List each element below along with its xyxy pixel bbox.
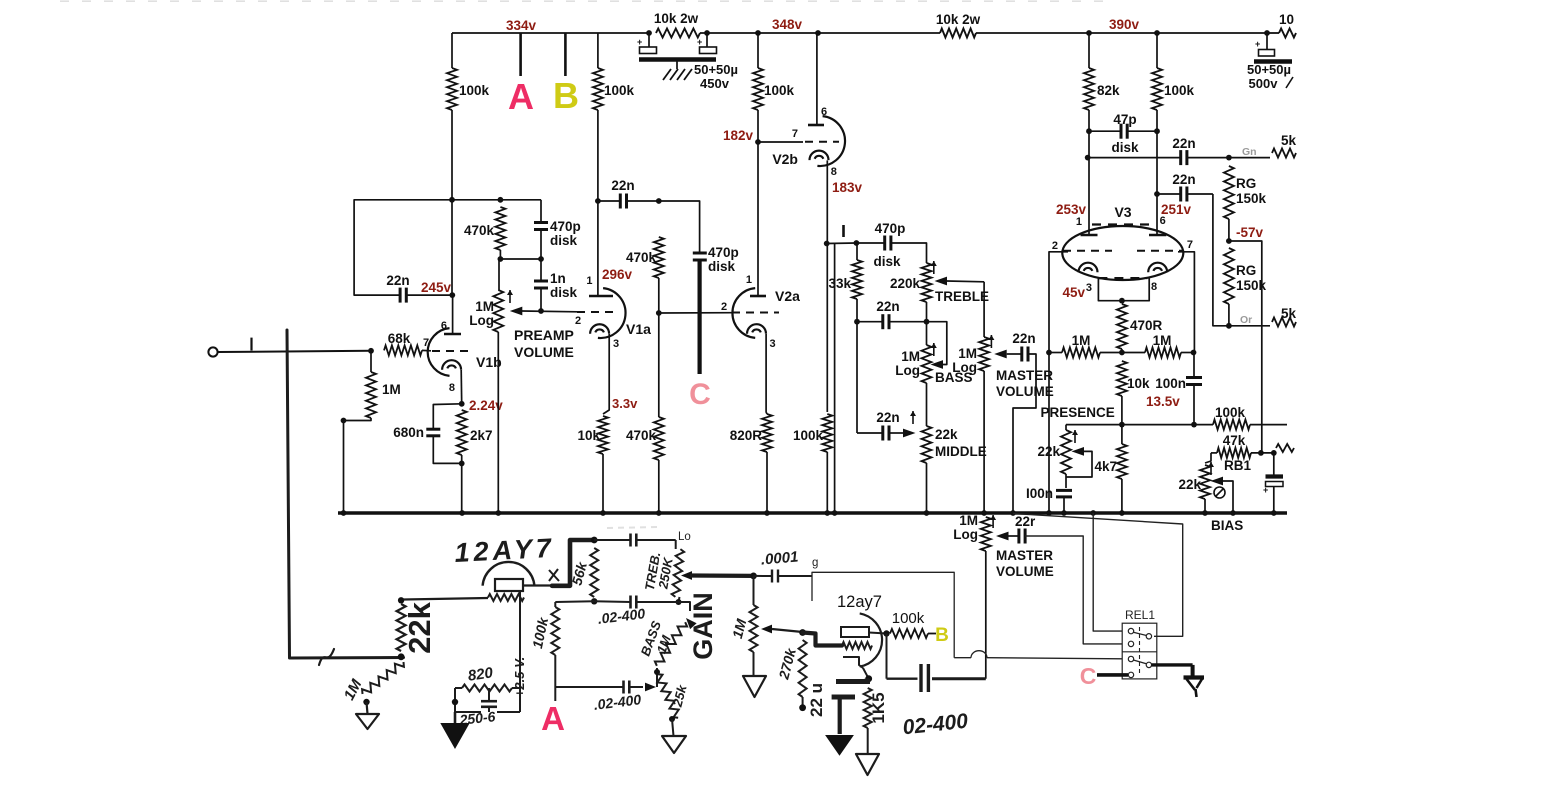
- svg-text:100k: 100k: [892, 610, 925, 627]
- wire hand 22k to grid: [404, 598, 489, 600]
- junction rail right of first 10k: [704, 30, 710, 36]
- wire presence pot top: [1065, 425, 1067, 430]
- svg-text:47k: 47k: [1223, 433, 1246, 448]
- svg-text:1M: 1M: [958, 346, 977, 361]
- triode hand tube2 cathode: [843, 657, 863, 668]
- input jack: [208, 347, 217, 356]
- svg-text:disk: disk: [708, 259, 736, 274]
- wire bass bottom to middle: [926, 383, 928, 426]
- junction hand 270k bottom: [799, 704, 806, 711]
- wire preamp pot to rail: [497, 332, 499, 513]
- label 470p disk C: [708, 245, 739, 274]
- svg-text:7: 7: [1187, 239, 1193, 251]
- svg-text:.0001: .0001: [760, 548, 799, 568]
- wire 470k-470p row: [500, 258, 541, 260]
- wire 1n top lead: [540, 259, 542, 281]
- junction presence row 10k: [1119, 422, 1125, 428]
- resistor hand 22k: [397, 604, 406, 651]
- capacitor 50+50u left plate: [637, 37, 657, 54]
- triode V2a envelope: [732, 288, 755, 338]
- potentiometer hand TREB 250K: [671, 549, 684, 598]
- triode hand tube2 arc: [860, 613, 882, 666]
- wire V3 pin2 frame: [1049, 252, 1068, 513]
- wire rail to 100k V2b: [757, 33, 759, 68]
- wire box bottom to relay: [954, 651, 1122, 659]
- capacitor 470p disk C: [693, 253, 707, 260]
- junction hand top node: [591, 537, 598, 544]
- potentiometer 22k PRESENCE: [1061, 430, 1071, 474]
- junction 47p right: [1154, 128, 1160, 134]
- capacitor 22n Gn: [1181, 150, 1187, 165]
- triode V1a cathode: [590, 324, 609, 333]
- resistor hand 1M diag: [360, 659, 406, 697]
- terminal C stub: [697, 260, 701, 374]
- mark stray stub: [842, 225, 845, 237]
- triode V1b envelope: [428, 328, 450, 376]
- wire hand plate out: [523, 584, 552, 586]
- svg-text:8: 8: [831, 166, 837, 178]
- wire V3 pin7 frame: [1178, 252, 1194, 353]
- svg-text:TREBLE: TREBLE: [935, 289, 989, 304]
- ground hand open mid: [662, 736, 686, 753]
- svg-text:1: 1: [1076, 216, 1082, 228]
- resistor 4k7: [1117, 444, 1127, 479]
- capacitor 50+50u 500v lead: [1266, 33, 1268, 49]
- triode V1b plate lead: [452, 295, 454, 334]
- wire 10k tail down: [1121, 396, 1123, 444]
- triode hand tube2 plate box: [841, 627, 869, 637]
- potentiometer 1M Log BASS: [922, 345, 932, 383]
- svg-text:334v: 334v: [506, 18, 537, 33]
- junction treble-bass node: [924, 319, 930, 325]
- junction hand bass bottom: [654, 669, 660, 675]
- arrow bass pot cw mark: [931, 343, 937, 356]
- wire 22n master1 right lead L: [1013, 354, 1036, 513]
- svg-text:6: 6: [821, 106, 827, 118]
- wire bias pot to rail: [1204, 499, 1206, 513]
- junction rail V2b plate: [815, 30, 821, 36]
- junction hand row2 right: [676, 599, 682, 605]
- svg-text:Log: Log: [953, 527, 978, 542]
- svg-text:RB1: RB1: [1224, 458, 1251, 473]
- svg-text:10k: 10k: [577, 428, 600, 443]
- junction 470k top: [656, 198, 662, 204]
- svg-text:PRESENCE: PRESENCE: [1041, 405, 1115, 420]
- wire 33k bottom lead: [856, 299, 858, 322]
- svg-text:1M: 1M: [959, 513, 978, 528]
- svg-text:7: 7: [792, 128, 798, 140]
- svg-text:VOLUME: VOLUME: [514, 344, 574, 360]
- junction fb loop 470k top: [498, 197, 504, 203]
- junction hand 56k bottom: [591, 598, 597, 604]
- svg-text:-57v: -57v: [1236, 225, 1264, 240]
- svg-text:22n: 22n: [876, 299, 899, 314]
- capacitor 470p disk tone: [885, 236, 891, 251]
- wire 1n bottom lead: [540, 288, 542, 311]
- wire 1M left leads: [1049, 352, 1122, 354]
- triode V3 bottom dashed: [1098, 277, 1147, 279]
- svg-text:g: g: [812, 557, 818, 569]
- potentiometer 22k BIAS: [1200, 465, 1210, 499]
- wire hand clus bottom: [455, 707, 520, 712]
- label 50+50u 450v: [694, 62, 738, 91]
- triode V2b plate bar: [808, 124, 824, 127]
- junction 182v node: [755, 139, 761, 145]
- wire hand clus left: [454, 688, 456, 712]
- triode V1a grid dashes: [577, 311, 619, 313]
- triode V1a envelope: [598, 288, 626, 338]
- mark hand twist: [319, 649, 334, 665]
- wire 2k7 node to rail: [461, 463, 463, 513]
- wire rail 390v segment: [976, 32, 1267, 34]
- wire hand gain thick: [690, 573, 754, 578]
- potentiometer hand 1M gain: [750, 605, 758, 652]
- capacitor bias electrolytic: [1263, 477, 1283, 496]
- ground hand open 1M: [743, 676, 766, 697]
- svg-text:1M: 1M: [382, 382, 401, 397]
- label 1M Log BASS: [895, 349, 920, 378]
- wire hand cath column: [519, 591, 521, 712]
- resistor 1M input: [366, 372, 376, 418]
- wire 100n presence to rail: [1063, 497, 1065, 513]
- wire Or drop: [1213, 194, 1270, 326]
- wire 100k V2b cathode to rail: [826, 452, 828, 513]
- wiper arrow hand TREB: [681, 571, 692, 580]
- junction hand gain node: [750, 573, 757, 580]
- wiper arrow MASTER 2: [996, 532, 1009, 541]
- relay contact r1: [1146, 634, 1151, 639]
- capacitor 22n master1: [1022, 347, 1028, 362]
- relay REL1 dashed axis: [1139, 627, 1141, 675]
- capacitor 50+50u left section lead: [648, 33, 650, 47]
- svg-text:MIDDLE: MIDDLE: [935, 444, 987, 459]
- capacitor 50+50u 500v plate: [1255, 39, 1275, 56]
- svg-text:BIAS: BIAS: [1211, 518, 1243, 533]
- wire 470k upper to grid tap: [658, 278, 660, 417]
- svg-text:Or: Or: [1240, 314, 1252, 326]
- junction 1M corner: [341, 418, 347, 424]
- wire 820R to ground rail: [766, 452, 768, 513]
- arrow bias pot cw mark: [1208, 462, 1214, 475]
- svg-text:680n: 680n: [393, 425, 424, 440]
- arrow middle pot cw mark: [910, 411, 916, 424]
- capacitor 22n coupling A: [620, 194, 626, 209]
- arrow master2 pot cw mark: [990, 515, 996, 528]
- junction ground rail master cap: [1010, 510, 1016, 516]
- wire hand thick elbow: [552, 540, 594, 586]
- svg-text:+: +: [697, 37, 702, 47]
- ground hand open 1K5: [856, 754, 879, 775]
- svg-text:3: 3: [1086, 282, 1092, 294]
- svg-text:470p: 470p: [875, 221, 906, 236]
- label MASTER VOLUME 1: [996, 368, 1054, 399]
- wire top B+ rail segment 334v: [452, 32, 649, 34]
- junction bias cap top: [1271, 450, 1277, 456]
- wire 470R to 1M row: [1121, 349, 1123, 353]
- junction ground rail bias cap: [1271, 510, 1277, 516]
- wire relay r2 to ground: [1152, 663, 1193, 666]
- svg-text:22n: 22n: [1172, 136, 1195, 151]
- svg-text:296v: 296v: [602, 267, 633, 282]
- wire tube2 cathode to node: [863, 668, 869, 679]
- capacitor 22n bass: [883, 314, 889, 329]
- resistor hand 270k: [799, 640, 807, 697]
- potentiometer 1M Log MASTER 2: [981, 517, 991, 551]
- label 1M Log master1: [952, 346, 977, 375]
- junction cathode mid: [1119, 298, 1125, 304]
- ground relay: [1184, 665, 1205, 697]
- wire 1M input top lead: [370, 351, 372, 372]
- resistor hand tube1 grid: [488, 594, 524, 601]
- wire rail stub to third resistor: [1267, 32, 1279, 34]
- resistor 820R V2a cathode: [762, 414, 772, 452]
- label MASTER VOLUME 2: [996, 548, 1054, 579]
- capacitor 22n middle: [883, 426, 889, 441]
- junction 1n wiper row: [538, 308, 544, 314]
- svg-text:100k: 100k: [764, 83, 795, 98]
- wire 182v down to V2a plate: [757, 142, 759, 296]
- svg-text:470k: 470k: [626, 250, 657, 265]
- relay contact r2: [1146, 662, 1151, 667]
- ground chassis stem: [676, 62, 678, 70]
- svg-text:100k: 100k: [604, 83, 635, 98]
- wire 10k to ground rail: [602, 454, 604, 513]
- junction tone stack input: [854, 240, 860, 246]
- junction 2.24v node: [459, 401, 465, 407]
- svg-text:33k: 33k: [828, 276, 851, 291]
- svg-text:1M: 1M: [1072, 333, 1091, 348]
- wire bias wiper loop: [1223, 481, 1233, 513]
- wiper arrow hand 1M: [761, 625, 772, 634]
- capacitor 50+50u common bar: [639, 57, 716, 62]
- junction ground rail master pot: [981, 510, 987, 516]
- wire 470k lower to ground rail: [658, 460, 660, 513]
- junction row left: [498, 256, 504, 262]
- junction input 1M: [368, 348, 374, 354]
- ground hand filled 22u: [827, 736, 852, 754]
- resistor 100k presence: [1213, 420, 1250, 430]
- wire hand 25k stem: [672, 719, 674, 736]
- triode V2a grid dashes: [732, 312, 779, 314]
- wiper arrow hand BASS: [683, 615, 697, 629]
- wire treble wiper down to master pot: [983, 282, 985, 337]
- svg-text:+: +: [1263, 485, 1268, 495]
- wire presence pot bottom: [1065, 474, 1067, 488]
- wire 680n bottom loop: [433, 436, 461, 463]
- svg-text:450v: 450v: [700, 76, 730, 91]
- svg-text:C: C: [1080, 663, 1097, 689]
- svg-text:B: B: [935, 625, 949, 646]
- wire 82k to V3 plate: [1088, 110, 1090, 235]
- svg-text:MASTER: MASTER: [996, 548, 1053, 563]
- wire 33k to 22n bass: [857, 321, 883, 323]
- capacitor 50+50u right section lead: [706, 33, 708, 47]
- label 1n disk: [550, 271, 578, 300]
- resistor hand 1K5: [864, 688, 872, 728]
- junction Or row: [1226, 323, 1232, 329]
- wire master1 arrow to 22n: [1007, 353, 1022, 355]
- wire rail down to 100k: [451, 33, 453, 68]
- capacitor 50+50u 500v bar: [1254, 59, 1292, 64]
- junction bias wiper rail: [1230, 510, 1236, 516]
- arrow presence pot cw mark: [1072, 430, 1078, 443]
- resistor 10k tail: [1117, 361, 1127, 396]
- junction ground rail 100k cathode: [824, 510, 830, 516]
- wire presence wiper loop: [1066, 451, 1092, 477]
- resistor 100k V1b plate load: [447, 68, 457, 110]
- mark bias adjust symbol: [1214, 487, 1225, 498]
- wire 22n middle left lead: [857, 432, 883, 434]
- junction hand 22k bottom: [398, 653, 405, 660]
- label 50+50u 500v: [1247, 62, 1291, 91]
- svg-text:500v: 500v: [1249, 76, 1279, 91]
- mark slash next to 500v: [1286, 77, 1293, 88]
- svg-text:470p: 470p: [550, 219, 581, 234]
- arrow master1 pot cw mark: [988, 335, 994, 348]
- junction 2k7 bottom: [459, 461, 465, 467]
- capacitor hand 22u: [832, 682, 870, 698]
- wire hand 820 left: [455, 687, 462, 689]
- wire 47k left corner: [1205, 453, 1211, 463]
- triode V1b cathode lead: [460, 370, 463, 404]
- capacitor 22n Or: [1181, 187, 1187, 202]
- wire tube2 plate out: [869, 633, 887, 634]
- mark erased label: [607, 527, 660, 528]
- wire 47k right lead: [1251, 452, 1274, 454]
- svg-text:1: 1: [746, 274, 752, 286]
- svg-text:+: +: [1255, 39, 1260, 49]
- svg-text:V1a: V1a: [626, 321, 651, 337]
- wire V3 cathodes join: [1098, 278, 1149, 301]
- wire Gn row: [1088, 157, 1181, 159]
- relay blade bottom: [1133, 660, 1146, 664]
- svg-text:10: 10: [1279, 12, 1294, 27]
- svg-text:22k: 22k: [935, 427, 958, 442]
- wire 02-400 left lead: [887, 678, 918, 680]
- wire hand row2: [555, 600, 678, 603]
- junction RG1 top: [1226, 155, 1232, 161]
- svg-text:1n: 1n: [550, 271, 566, 286]
- ground hand open left: [356, 714, 379, 729]
- triode V3 left cathode: [1079, 263, 1098, 273]
- wire bass wiper loop: [927, 322, 947, 365]
- wire hand 1M gain bottom: [753, 652, 755, 676]
- junction ground rail tone tee: [832, 510, 838, 516]
- svg-text:3: 3: [613, 338, 619, 350]
- svg-text:A: A: [508, 76, 534, 117]
- wire hand treb bottom: [679, 597, 680, 602]
- resistor 10k 2w (first): [656, 29, 700, 38]
- triode V1b cathode: [442, 360, 461, 370]
- resistor 100k tube2: [890, 629, 928, 638]
- label RG 150k lower: [1236, 263, 1267, 293]
- svg-text:1M: 1M: [475, 299, 494, 314]
- wire hand 270k bottom: [802, 697, 804, 706]
- relay contact c3: [1128, 656, 1133, 661]
- svg-text:50+50µ: 50+50µ: [694, 62, 738, 77]
- junction ground rail 820R: [764, 510, 770, 516]
- svg-text:100k: 100k: [459, 83, 490, 98]
- capacitor hand 02-400 out: [921, 664, 928, 692]
- resistor 1M left: [1062, 348, 1100, 358]
- resistor 1M right: [1145, 348, 1181, 358]
- svg-text:MASTER: MASTER: [996, 368, 1053, 383]
- junction fb loop 100k line: [449, 197, 455, 203]
- svg-text:5k: 5k: [1281, 133, 1297, 148]
- wire -57v to bias branch: [1229, 241, 1262, 453]
- junction hand 22k top: [398, 597, 404, 603]
- wire diagonal to relay r1: [1013, 514, 1183, 637]
- svg-text:B: B: [553, 75, 579, 116]
- potentiometer hand 25k: [654, 673, 682, 720]
- wire hand top cap leads: [594, 539, 676, 541]
- potentiometer 220k TREBLE: [922, 263, 932, 302]
- svg-text:+: +: [637, 37, 642, 47]
- wire 22n fb left loop: [354, 200, 541, 295]
- wire feed to tone stack: [827, 242, 856, 245]
- capacitor hand 02-400 a: [631, 596, 637, 609]
- triode V2b cathode lead: [826, 160, 828, 412]
- wire master2 bottom long: [985, 551, 987, 679]
- svg-text:PREAMP: PREAMP: [514, 327, 574, 343]
- capacitor 50+50u right plate: [697, 37, 717, 54]
- wire 680n loop: [433, 404, 461, 428]
- triode V1a cathode lead: [603, 334, 609, 414]
- svg-text:disk: disk: [873, 254, 901, 269]
- capacitor 100n presence: [1056, 490, 1072, 497]
- arrow preamp pot cw mark: [507, 290, 513, 303]
- svg-text:1M: 1M: [1153, 333, 1172, 348]
- resistor 47k RB1: [1217, 448, 1251, 458]
- wire RG1 to -57v node: [1228, 219, 1230, 241]
- wire hand left column: [554, 602, 556, 607]
- svg-text:182v: 182v: [723, 128, 754, 143]
- wire bias cap stem top: [1273, 453, 1275, 475]
- wire hand 1M gain top: [753, 576, 755, 605]
- svg-text:100k: 100k: [1215, 405, 1246, 420]
- triode V2b grid dashes: [805, 141, 839, 143]
- svg-text:100n: 100n: [1155, 376, 1186, 391]
- capacitor 100n PI: [1186, 378, 1202, 385]
- wire tube2 plate down: [886, 634, 888, 679]
- wiper arrow hand MID: [645, 683, 656, 692]
- svg-text:820R: 820R: [730, 428, 763, 443]
- svg-text:1K5: 1K5: [869, 692, 888, 723]
- junction hand clus: [452, 699, 458, 705]
- label 470p disk fb: [550, 219, 581, 248]
- svg-text:22n: 22n: [1172, 172, 1195, 187]
- wire 100k tube2 to B: [928, 633, 936, 635]
- wire treble wiper to master volume: [947, 280, 984, 283]
- svg-text:47p: 47p: [1113, 112, 1136, 127]
- svg-text:Lo: Lo: [678, 531, 691, 543]
- label RG 150k upper: [1236, 176, 1267, 206]
- svg-text:Log: Log: [895, 363, 920, 378]
- wire 100n PI bottom lead: [1193, 385, 1195, 425]
- svg-text:253v: 253v: [1056, 202, 1087, 217]
- relay REL1 box: [1122, 623, 1157, 679]
- wire hand .0001 leads: [754, 575, 813, 577]
- junction hand 25k bottom: [669, 716, 675, 722]
- svg-text:5k: 5k: [1281, 306, 1297, 321]
- svg-text:100k: 100k: [793, 428, 824, 443]
- junction ground rail preamp pot: [495, 510, 501, 516]
- svg-text:disk: disk: [1111, 140, 1139, 155]
- junction Gn row left: [1085, 155, 1091, 161]
- capacitor hand .0001: [772, 570, 778, 583]
- wiper arrow MASTER 1: [994, 350, 1007, 359]
- resistor RG 150k upper: [1224, 166, 1234, 219]
